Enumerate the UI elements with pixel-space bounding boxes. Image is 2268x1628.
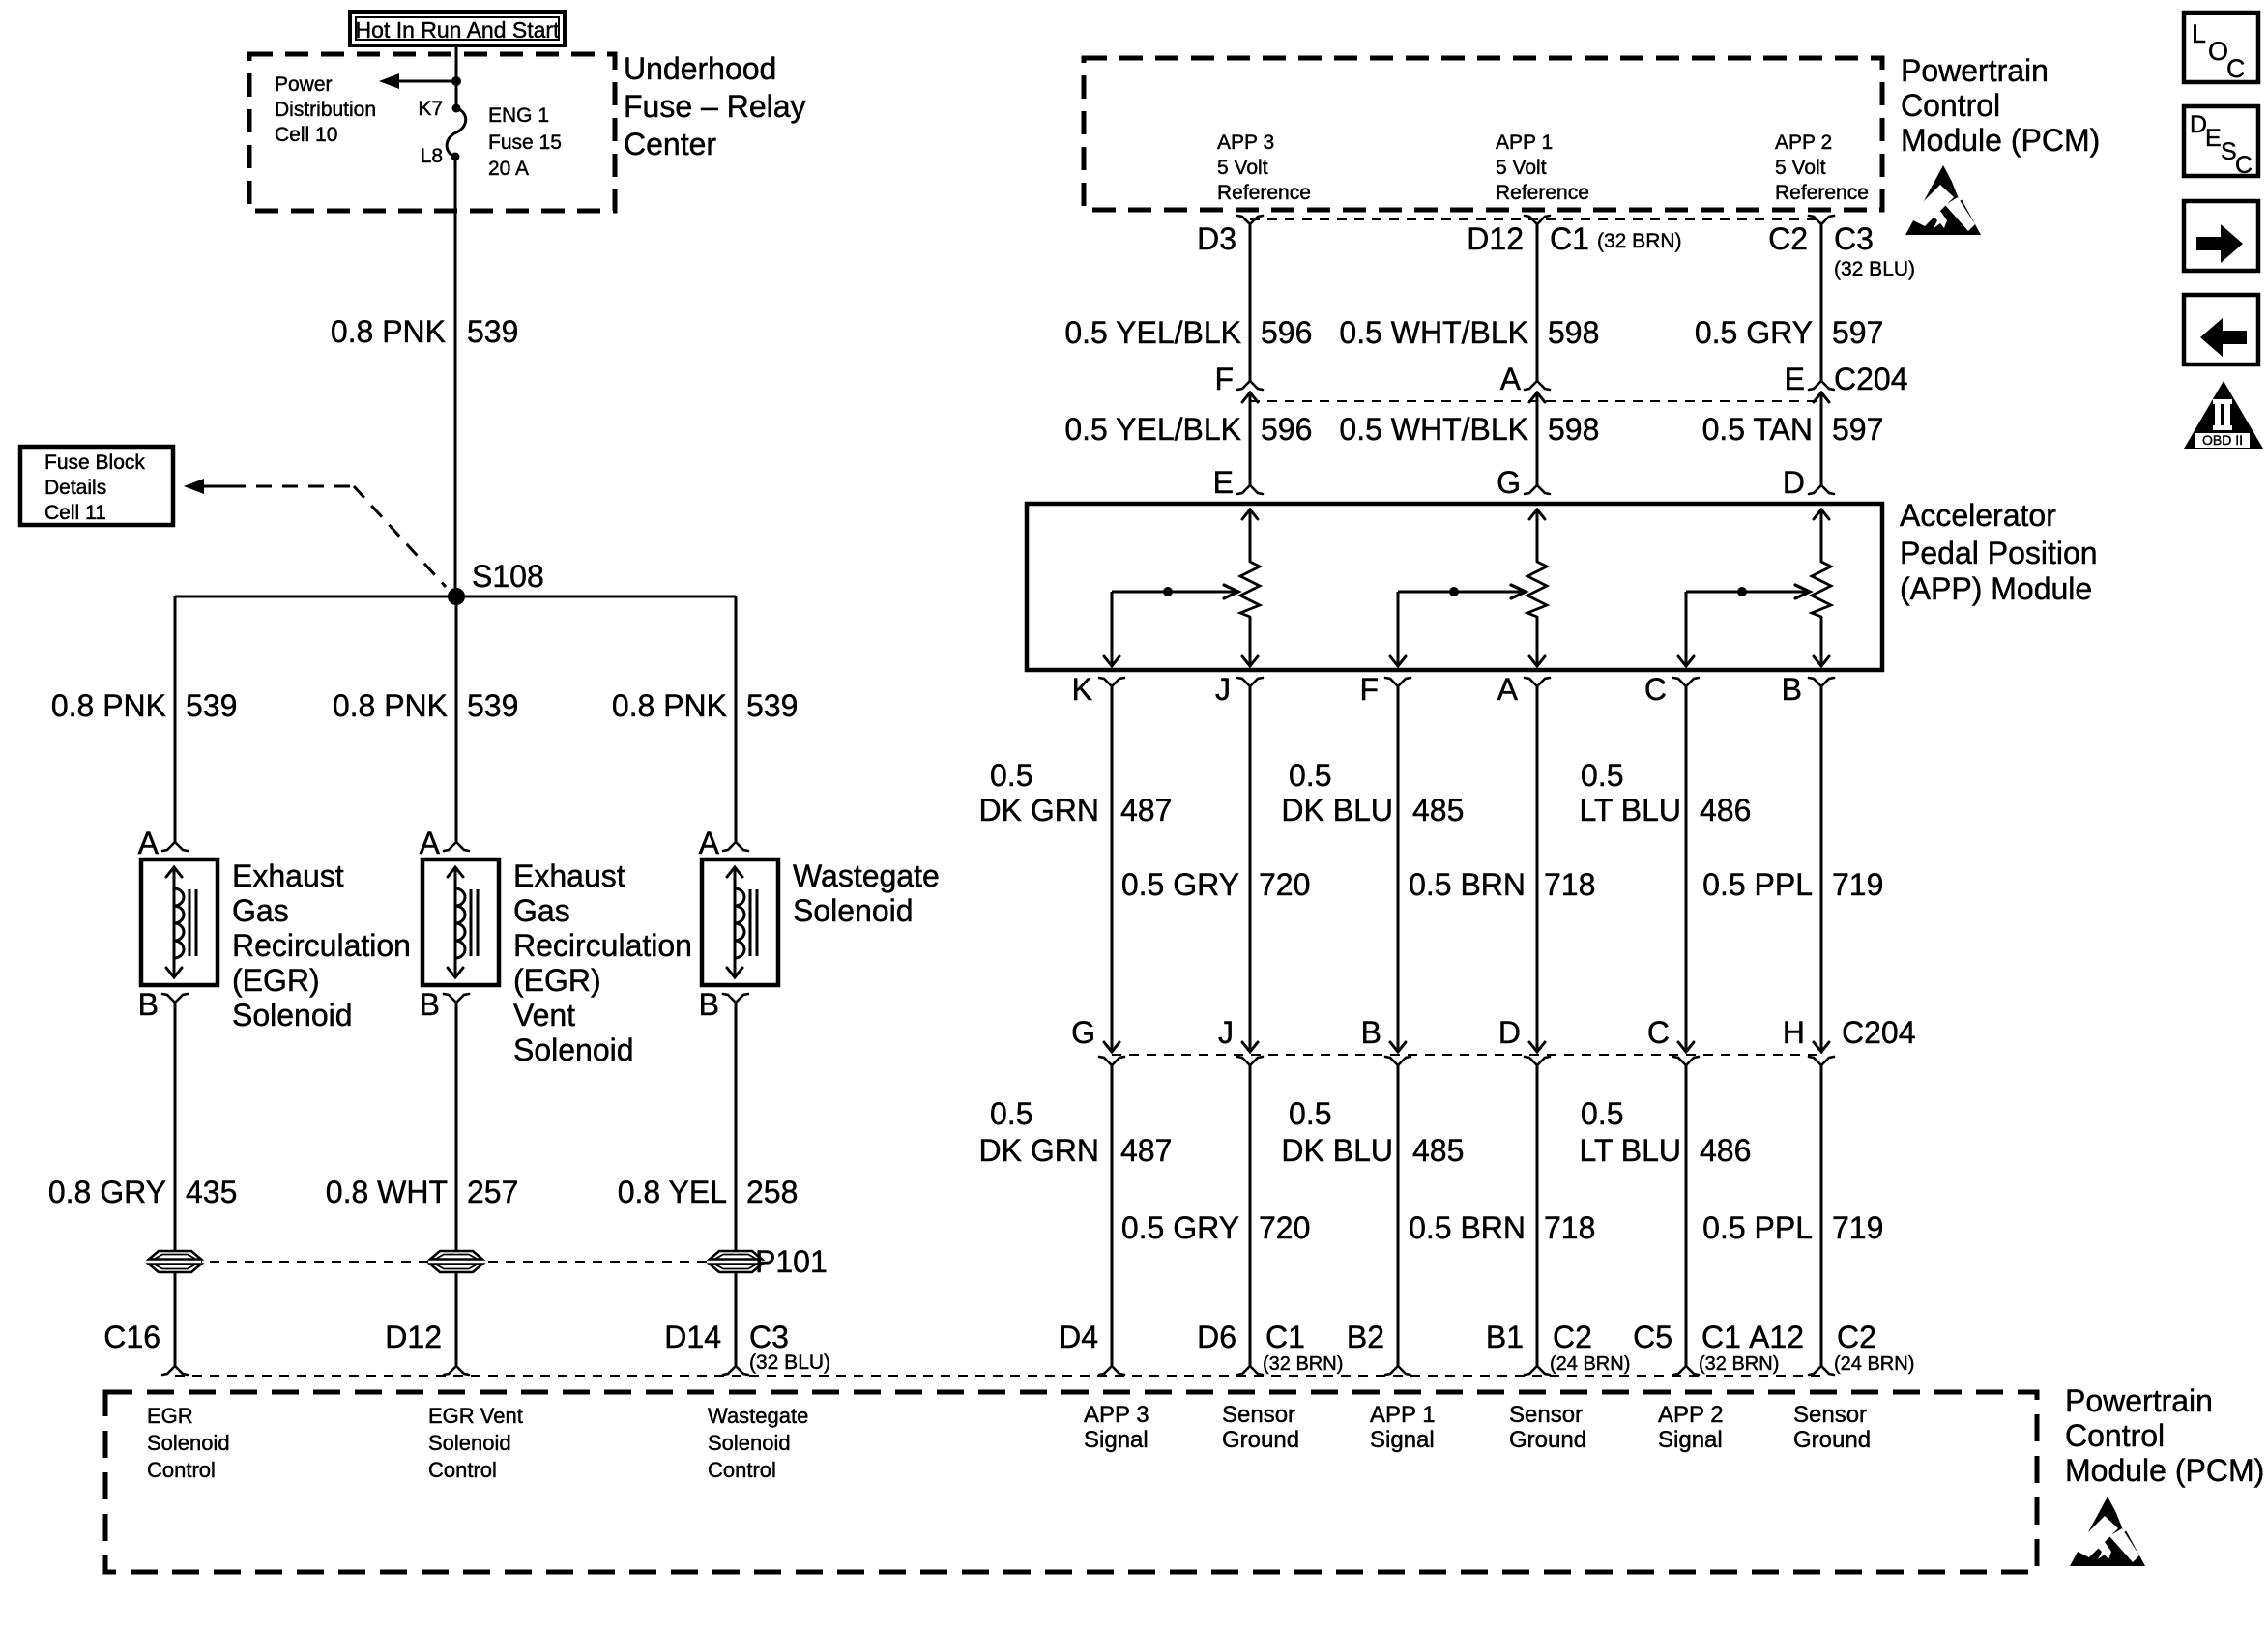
potentiometer APP sensor 1 bbox=[1240, 509, 1260, 666]
svg-text:C: C bbox=[1644, 672, 1667, 707]
svg-text:D12: D12 bbox=[1467, 221, 1524, 256]
svg-text:Exhaust: Exhaust bbox=[232, 858, 344, 893]
wire 0.5 TAN 597 from C204 to APP module bbox=[1820, 392, 1823, 485]
label: APP 1 5 Volt Reference bbox=[1496, 131, 1589, 204]
PCM connector terminal C5 bbox=[1673, 1366, 1686, 1375]
wire label 0.5 BRN 718 lower bbox=[1409, 1210, 1595, 1245]
svg-text:C: C bbox=[2226, 54, 2246, 83]
svg-text:C3: C3 bbox=[749, 1320, 789, 1354]
svg-text:0.5 YEL/BLK: 0.5 YEL/BLK bbox=[1064, 412, 1241, 447]
wastegate solenoid coil box bbox=[702, 859, 778, 985]
svg-text:G: G bbox=[1497, 465, 1521, 500]
svg-text:Signal: Signal bbox=[1084, 1427, 1149, 1453]
svg-text:Solenoid: Solenoid bbox=[232, 998, 353, 1032]
APP module terminal E bbox=[1237, 485, 1250, 494]
svg-text:G: G bbox=[1071, 1015, 1095, 1050]
svg-text:(32 BRN): (32 BRN) bbox=[1263, 1353, 1343, 1375]
APP module terminal J bbox=[1237, 678, 1250, 686]
PCM connector terminal D6 bbox=[1237, 1366, 1250, 1375]
svg-text:Recirculation: Recirculation bbox=[513, 928, 692, 963]
wire into PCM C16 bbox=[174, 1272, 177, 1366]
svg-text:Powertrain: Powertrain bbox=[2065, 1383, 2213, 1418]
svg-text:Hot In Run And Start: Hot In Run And Start bbox=[356, 17, 561, 43]
svg-text:L8: L8 bbox=[421, 145, 443, 167]
svg-text:Sensor: Sensor bbox=[1793, 1402, 1867, 1428]
wire 0.5 YEL/BLK 596 from C204 to APP module bbox=[1249, 392, 1252, 485]
svg-text:A: A bbox=[699, 826, 720, 860]
wire from C204 D to PCM bbox=[1536, 1065, 1539, 1366]
APP module terminal F bbox=[1385, 678, 1398, 686]
svg-text:C: C bbox=[2235, 152, 2253, 179]
svg-text:0.5: 0.5 bbox=[990, 1096, 1032, 1131]
svg-text:C204: C204 bbox=[1842, 1015, 1916, 1050]
node: wiper junction 1 bbox=[1163, 587, 1173, 596]
wire from APP K to C204 bbox=[1111, 686, 1114, 1051]
pin B terminal bbox=[162, 994, 175, 1003]
wire 0.8 GRY 435 to P101 bbox=[174, 1003, 177, 1251]
wire from C204 J to PCM bbox=[1249, 1065, 1252, 1366]
wire label 0.5 LT BLU 486 lower bbox=[1579, 1096, 1751, 1168]
connector C204 terminal D lower bbox=[1525, 1057, 1537, 1065]
svg-text:0.5 WHT/BLK: 0.5 WHT/BLK bbox=[1339, 315, 1528, 350]
svg-text:C2: C2 bbox=[1768, 221, 1808, 256]
svg-text:539: 539 bbox=[467, 314, 518, 349]
svg-text:0.5 GRY: 0.5 GRY bbox=[1121, 867, 1239, 902]
svg-text:D3: D3 bbox=[1197, 221, 1236, 256]
svg-text:0.5 PPL: 0.5 PPL bbox=[1702, 1210, 1813, 1245]
dashed reference arrow to S108 bbox=[184, 479, 446, 587]
svg-text:Solenoid: Solenoid bbox=[708, 1431, 791, 1455]
label: Powertrain Control Module (PCM) bbox=[1901, 53, 2100, 158]
label: EGR solenoid bbox=[232, 858, 411, 1032]
wire label 0.5 DK BLU 485 upper bbox=[1281, 758, 1464, 828]
pin B terminal bbox=[723, 994, 736, 1003]
svg-text:C1: C1 bbox=[1701, 1320, 1741, 1354]
label: Powertrain Control Module (PCM) bottom bbox=[2065, 1383, 2264, 1488]
APP module terminal C bbox=[1673, 678, 1686, 686]
wire label 0.5 BRN 718 upper bbox=[1409, 867, 1595, 902]
pin A terminal bbox=[723, 842, 736, 851]
svg-text:596: 596 bbox=[1261, 412, 1312, 447]
svg-text:0.8 PNK: 0.8 PNK bbox=[51, 688, 166, 723]
svg-text:720: 720 bbox=[1259, 867, 1310, 902]
PCM connector terminal D4 bbox=[1099, 1366, 1112, 1375]
svg-text:C5: C5 bbox=[1633, 1320, 1672, 1354]
wire 0.8 YEL 258 to P101 bbox=[735, 1003, 738, 1251]
svg-text:539: 539 bbox=[746, 688, 798, 723]
wire label 0.5 PPL 719 upper bbox=[1702, 867, 1883, 902]
svg-text:Cell 10: Cell 10 bbox=[275, 124, 337, 146]
wire into PCM D14 bbox=[735, 1272, 738, 1366]
svg-text:APP 1: APP 1 bbox=[1370, 1402, 1436, 1428]
svg-text:718: 718 bbox=[1544, 1210, 1595, 1245]
connector C204 terminal J upper bbox=[1242, 1042, 1258, 1052]
APP module terminal G bbox=[1525, 485, 1537, 494]
svg-text:ENG 1: ENG 1 bbox=[488, 104, 549, 127]
connector C204 terminal D upper bbox=[1529, 1042, 1545, 1052]
PCM connector terminal C16 bbox=[162, 1366, 175, 1375]
svg-text:0.5: 0.5 bbox=[1289, 1096, 1331, 1131]
svg-text:K: K bbox=[1072, 672, 1092, 707]
connector C204 lower dashed tie line bbox=[1112, 1054, 1821, 1056]
PCM connector terminal D14 bbox=[723, 1366, 736, 1375]
svg-text:B: B bbox=[699, 987, 719, 1022]
svg-text:OBD II: OBD II bbox=[2202, 432, 2243, 448]
svg-text:E: E bbox=[2205, 125, 2222, 152]
svg-text:APP 3: APP 3 bbox=[1084, 1402, 1149, 1428]
icon: forward arrow bbox=[2184, 201, 2258, 271]
wire PNK 539 from Hot In Run And Start into fuse block bbox=[455, 45, 458, 108]
svg-text:Power: Power bbox=[275, 73, 333, 96]
label: Accelerator Pedal Position (APP) Module bbox=[1900, 498, 2098, 606]
node: tap to Power Distribution bbox=[451, 76, 461, 86]
svg-text:0.5: 0.5 bbox=[1581, 758, 1623, 793]
connector C204 terminal A upper bbox=[1525, 381, 1537, 390]
PCM function label: EGR Solenoid Control bbox=[147, 1404, 230, 1482]
svg-text:539: 539 bbox=[467, 688, 518, 723]
node: wiper junction 3 bbox=[1737, 587, 1747, 596]
EGR vent solenoid coil box bbox=[422, 859, 499, 985]
svg-text:486: 486 bbox=[1700, 793, 1751, 828]
svg-text:Cell 11: Cell 11 bbox=[44, 502, 106, 524]
EGR solenoid coil box bbox=[141, 859, 218, 985]
svg-text:Ground: Ground bbox=[1793, 1427, 1871, 1453]
potentiometer APP sensor 3 bbox=[1812, 509, 1831, 666]
svg-text:E: E bbox=[1213, 465, 1234, 500]
svg-text:20 A: 20 A bbox=[488, 158, 529, 180]
svg-text:DK GRN: DK GRN bbox=[979, 1133, 1099, 1168]
label: EGR vent solenoid bbox=[513, 858, 692, 1067]
PCM connector terminal B1 bbox=[1525, 1366, 1537, 1375]
ESD sensitive device symbol bottom bbox=[2070, 1497, 2145, 1566]
pin L8 terminal dot bbox=[451, 153, 460, 161]
PCM connector terminal A12 bbox=[1809, 1366, 1821, 1375]
power label box: Hot In Run And Start bbox=[350, 12, 565, 45]
svg-text:0.5 BRN: 0.5 BRN bbox=[1409, 867, 1526, 902]
svg-text:Underhood: Underhood bbox=[624, 51, 776, 86]
svg-text:D: D bbox=[1498, 1015, 1521, 1050]
svg-text:DK BLU: DK BLU bbox=[1281, 793, 1393, 828]
svg-text:(24 BRN): (24 BRN) bbox=[1834, 1353, 1914, 1375]
wire from APP B to C204 bbox=[1820, 686, 1823, 1051]
svg-text:0.8 PNK: 0.8 PNK bbox=[331, 314, 446, 349]
svg-text:O: O bbox=[2208, 37, 2228, 66]
connector P101 pass-through 3 bbox=[710, 1251, 762, 1272]
svg-text:(EGR): (EGR) bbox=[513, 963, 601, 998]
svg-text:0.5 GRY: 0.5 GRY bbox=[1695, 315, 1813, 350]
label: Underhood Fuse - Relay Center bbox=[624, 51, 806, 161]
PCM function label: Wastegate Solenoid Control bbox=[708, 1404, 808, 1482]
arrow to Power Distribution Cell 10 bbox=[379, 73, 456, 89]
svg-text:B2: B2 bbox=[1347, 1320, 1384, 1354]
svg-text:0.5 TAN: 0.5 TAN bbox=[1702, 412, 1813, 447]
svg-text:Reference: Reference bbox=[1775, 182, 1869, 204]
svg-text:A12: A12 bbox=[1749, 1320, 1804, 1354]
svg-text:539: 539 bbox=[186, 688, 237, 723]
svg-text:DK BLU: DK BLU bbox=[1281, 1133, 1393, 1168]
svg-text:435: 435 bbox=[186, 1175, 237, 1209]
svg-text:0.5 PPL: 0.5 PPL bbox=[1702, 867, 1813, 902]
svg-text:LT BLU: LT BLU bbox=[1579, 793, 1681, 828]
svg-text:Exhaust: Exhaust bbox=[513, 858, 625, 893]
svg-text:Module (PCM): Module (PCM) bbox=[2065, 1453, 2264, 1488]
svg-text:Solenoid: Solenoid bbox=[513, 1032, 634, 1067]
svg-text:485: 485 bbox=[1412, 793, 1464, 828]
svg-text:Accelerator: Accelerator bbox=[1900, 498, 2056, 533]
reference box: Fuse Block Details Cell 11 bbox=[20, 447, 173, 525]
svg-text:A: A bbox=[1500, 362, 1522, 396]
svg-text:Sensor: Sensor bbox=[1509, 1402, 1583, 1428]
svg-text:Details: Details bbox=[44, 477, 106, 499]
svg-text:Solenoid: Solenoid bbox=[428, 1431, 511, 1455]
svg-text:Wastegate: Wastegate bbox=[793, 858, 940, 893]
svg-text:718: 718 bbox=[1544, 867, 1595, 902]
ESD sensitive device symbol bbox=[1905, 165, 1981, 235]
svg-text:Gas: Gas bbox=[513, 893, 570, 928]
APP module terminal K bbox=[1099, 678, 1112, 686]
svg-text:Control: Control bbox=[147, 1458, 216, 1482]
wire from C204 H to PCM bbox=[1820, 1065, 1823, 1366]
potentiometer APP sensor 2 bbox=[1527, 509, 1547, 666]
svg-text:DK GRN: DK GRN bbox=[979, 793, 1099, 828]
wire 0.8 WHT 257 to P101 bbox=[455, 1003, 458, 1251]
wire label 0.5 DK GRN 487 lower bbox=[979, 1096, 1173, 1168]
svg-text:0.5: 0.5 bbox=[1289, 758, 1331, 793]
connector C204 dashed tie line bbox=[1250, 400, 1821, 402]
icon: DESC bbox=[2184, 106, 2258, 179]
svg-text:0.5 WHT/BLK: 0.5 WHT/BLK bbox=[1339, 412, 1528, 447]
svg-text:Control: Control bbox=[428, 1458, 497, 1482]
connector C204 terminal H lower bbox=[1809, 1057, 1821, 1065]
wire 0.5 WHT/BLK 598 from PCM to C204 bbox=[1536, 224, 1539, 381]
PCM top connector dashed tie line bbox=[1250, 218, 1821, 220]
svg-text:Control: Control bbox=[1901, 88, 2000, 123]
svg-text:C: C bbox=[1647, 1015, 1670, 1050]
label: Power Distribution Cell 10 bbox=[275, 73, 376, 146]
svg-text:C1: C1 bbox=[1265, 1320, 1305, 1354]
svg-text:487: 487 bbox=[1120, 1133, 1172, 1168]
svg-text:D4: D4 bbox=[1059, 1320, 1098, 1354]
PCM terminal C2 bbox=[1809, 216, 1821, 224]
PCM function label: APP 1 Signal bbox=[1370, 1402, 1436, 1453]
svg-text:720: 720 bbox=[1259, 1210, 1310, 1245]
svg-text:Sensor: Sensor bbox=[1222, 1402, 1295, 1428]
svg-text:Fuse – Relay: Fuse – Relay bbox=[624, 89, 806, 124]
wire from APP C to C204 bbox=[1685, 686, 1688, 1051]
svg-text:A: A bbox=[1497, 672, 1519, 707]
svg-text:LT BLU: LT BLU bbox=[1579, 1133, 1681, 1168]
svg-text:B: B bbox=[138, 987, 159, 1022]
svg-text:0.5: 0.5 bbox=[1581, 1096, 1623, 1131]
wire 0.5 GRY 597 from PCM to C204 bbox=[1820, 224, 1823, 381]
wire label 0.5 GRY 720 lower bbox=[1121, 1210, 1311, 1245]
svg-text:APP 2: APP 2 bbox=[1658, 1402, 1724, 1428]
connector C204 terminal C lower bbox=[1673, 1057, 1686, 1065]
pin A terminal bbox=[162, 842, 175, 851]
svg-text:P101: P101 bbox=[755, 1244, 828, 1279]
PCM function label: Sensor Ground bbox=[1222, 1402, 1299, 1453]
wire from APP F to C204 bbox=[1397, 686, 1400, 1051]
svg-text:0.8 PNK: 0.8 PNK bbox=[612, 688, 727, 723]
svg-text:E: E bbox=[1785, 362, 1805, 396]
svg-text:719: 719 bbox=[1832, 867, 1883, 902]
wire 0.8 PNK 539 branch 1 bbox=[174, 596, 177, 842]
wire from C204 G to PCM bbox=[1111, 1065, 1114, 1366]
connector C204 terminal J lower bbox=[1237, 1057, 1250, 1065]
fuse ENG 1 Fuse 15 20 A symbol bbox=[447, 108, 466, 157]
wire label 0.5 DK BLU 485 lower bbox=[1281, 1096, 1464, 1168]
connector C204 terminal B upper bbox=[1390, 1042, 1406, 1052]
svg-text:EGR Vent: EGR Vent bbox=[428, 1404, 523, 1428]
PCM connector terminal D12 bbox=[444, 1366, 456, 1375]
svg-text:D: D bbox=[1783, 465, 1805, 500]
connector C204 terminal G lower bbox=[1099, 1057, 1112, 1065]
svg-text:B: B bbox=[1361, 1015, 1381, 1050]
node: wiper junction 2 bbox=[1449, 587, 1459, 596]
svg-text:APP 3: APP 3 bbox=[1217, 131, 1274, 154]
svg-text:5 Volt: 5 Volt bbox=[1775, 157, 1826, 179]
svg-text:0.5 YEL/BLK: 0.5 YEL/BLK bbox=[1064, 315, 1241, 350]
connector C204 terminal B lower bbox=[1385, 1057, 1398, 1065]
potentiometer wiper 3 bbox=[1678, 585, 1810, 666]
wire from C204 C to PCM bbox=[1685, 1065, 1688, 1366]
wire bus from S108 to branches bbox=[175, 596, 736, 598]
svg-text:Control: Control bbox=[2065, 1418, 2165, 1453]
svg-text:Powertrain: Powertrain bbox=[1901, 53, 2049, 88]
svg-text:486: 486 bbox=[1700, 1133, 1751, 1168]
svg-text:719: 719 bbox=[1832, 1210, 1883, 1245]
svg-text:B: B bbox=[1782, 672, 1802, 707]
wire label 0.5 DK GRN 487 upper bbox=[979, 758, 1173, 828]
Powertrain Control Module dashed box (top) bbox=[1084, 58, 1882, 210]
svg-text:C3: C3 bbox=[1834, 221, 1874, 256]
label: APP 3 5 Volt Reference bbox=[1217, 131, 1311, 204]
svg-text:598: 598 bbox=[1548, 412, 1599, 447]
svg-text:257: 257 bbox=[467, 1175, 518, 1209]
svg-text:0.5 BRN: 0.5 BRN bbox=[1409, 1210, 1526, 1245]
PCM terminal D12 bbox=[1525, 216, 1537, 224]
PCM function label: APP 2 Signal bbox=[1658, 1402, 1724, 1453]
svg-text:APP 2: APP 2 bbox=[1775, 131, 1832, 154]
label: ENG 1 Fuse 15 20 A bbox=[488, 104, 562, 180]
svg-text:H: H bbox=[1783, 1015, 1805, 1050]
Underhood Fuse-Relay Center dashed box bbox=[249, 54, 615, 211]
svg-text:597: 597 bbox=[1832, 315, 1883, 350]
Powertrain Control Module dashed box (bottom) bbox=[105, 1392, 2037, 1572]
wire 0.8 PNK 539 branch 2 bbox=[455, 596, 458, 842]
PCM terminal D3 bbox=[1237, 216, 1250, 224]
wire 0.5 WHT/BLK 598 from C204 to APP module bbox=[1536, 392, 1539, 485]
svg-text:597: 597 bbox=[1832, 412, 1883, 447]
svg-text:Vent: Vent bbox=[513, 998, 575, 1032]
wire label 0.5 LT BLU 486 upper bbox=[1579, 758, 1751, 828]
svg-text:(32 BRN): (32 BRN) bbox=[1597, 230, 1682, 252]
connector C204 terminal C upper bbox=[1678, 1042, 1694, 1052]
svg-text:Center: Center bbox=[624, 127, 716, 161]
svg-text:F: F bbox=[1359, 672, 1379, 707]
svg-text:D12: D12 bbox=[385, 1320, 442, 1354]
svg-text:Gas: Gas bbox=[232, 893, 289, 928]
svg-text:258: 258 bbox=[746, 1175, 798, 1209]
APP module terminal A bbox=[1525, 678, 1537, 686]
svg-text:B: B bbox=[420, 987, 440, 1022]
svg-text:J: J bbox=[1218, 1015, 1234, 1050]
wire label 0.5 PPL 719 lower bbox=[1702, 1210, 1883, 1245]
svg-text:Pedal Position: Pedal Position bbox=[1900, 536, 2098, 570]
connector C204 terminal E upper bbox=[1809, 381, 1821, 390]
svg-text:A: A bbox=[138, 826, 160, 860]
potentiometer wiper 2 bbox=[1390, 585, 1526, 666]
svg-text:C2: C2 bbox=[1837, 1320, 1876, 1354]
PCM connector terminal B2 bbox=[1385, 1366, 1398, 1375]
PCM function label: EGR Vent Solenoid Control bbox=[428, 1404, 523, 1482]
svg-text:Signal: Signal bbox=[1658, 1427, 1723, 1453]
svg-text:0.8 YEL: 0.8 YEL bbox=[618, 1175, 727, 1209]
svg-text:0.8 PNK: 0.8 PNK bbox=[333, 688, 448, 723]
APP module terminal B bbox=[1809, 678, 1821, 686]
svg-text:C204: C204 bbox=[1834, 362, 1908, 396]
svg-text:(32 BLU): (32 BLU) bbox=[1834, 258, 1915, 280]
Accelerator Pedal Position (APP) Module box bbox=[1027, 504, 1882, 670]
svg-text:Wastegate: Wastegate bbox=[708, 1404, 808, 1428]
svg-text:Reference: Reference bbox=[1496, 182, 1589, 204]
pin B terminal bbox=[444, 994, 456, 1003]
svg-text:C16: C16 bbox=[103, 1320, 160, 1354]
wire 0.8 PNK 539 from fuse to S108 bbox=[454, 157, 457, 596]
svg-text:(32 BRN): (32 BRN) bbox=[1699, 1353, 1779, 1375]
svg-text:S108: S108 bbox=[472, 559, 544, 594]
svg-text:C1: C1 bbox=[1550, 221, 1589, 256]
svg-text:EGR: EGR bbox=[147, 1404, 193, 1428]
wire from APP A to C204 bbox=[1536, 686, 1539, 1051]
wire 0.5 YEL/BLK 596 from PCM to C204 bbox=[1249, 224, 1252, 381]
connector P101 pass-through 2 bbox=[430, 1251, 482, 1272]
svg-text:Solenoid: Solenoid bbox=[147, 1431, 230, 1455]
svg-text:B1: B1 bbox=[1486, 1320, 1524, 1354]
svg-text:Solenoid: Solenoid bbox=[793, 893, 914, 928]
pin K7 terminal dot bbox=[452, 104, 461, 113]
connector C204 terminal H upper bbox=[1814, 1042, 1829, 1052]
connector C204 terminal A lower bbox=[1529, 392, 1545, 402]
label: wastegate solenoid bbox=[793, 858, 940, 928]
connector C204 terminal F upper bbox=[1237, 381, 1250, 390]
connector C204 terminal E lower bbox=[1814, 392, 1829, 402]
connector C204 terminal F lower bbox=[1242, 392, 1258, 402]
PCM bottom connector dashed tie line bbox=[175, 1375, 1821, 1377]
svg-text:APP 1: APP 1 bbox=[1496, 131, 1553, 154]
APP module terminal D bbox=[1809, 485, 1821, 494]
svg-text:485: 485 bbox=[1412, 1133, 1464, 1168]
svg-text:K7: K7 bbox=[418, 98, 443, 120]
wire from APP J to C204 bbox=[1249, 686, 1252, 1051]
svg-text:D14: D14 bbox=[664, 1320, 721, 1354]
svg-text:Signal: Signal bbox=[1370, 1427, 1435, 1453]
wire 0.8 PNK 539 branch 3 bbox=[735, 596, 738, 842]
wire label 0.5 GRY 720 upper bbox=[1121, 867, 1311, 902]
svg-text:C2: C2 bbox=[1553, 1320, 1592, 1354]
pin A terminal bbox=[444, 842, 456, 851]
svg-text:0.8 WHT: 0.8 WHT bbox=[326, 1175, 448, 1209]
svg-text:A: A bbox=[420, 826, 441, 860]
node S108 splice bbox=[448, 588, 465, 605]
svg-text:0.5: 0.5 bbox=[990, 758, 1032, 793]
icon: OBD II triangle bbox=[2184, 381, 2263, 449]
svg-text:Reference: Reference bbox=[1217, 182, 1311, 204]
svg-text:J: J bbox=[1215, 672, 1231, 707]
icon: LOC bbox=[2184, 13, 2258, 83]
connector P101 dashed tie line bbox=[175, 1261, 736, 1263]
svg-text:598: 598 bbox=[1548, 315, 1599, 350]
